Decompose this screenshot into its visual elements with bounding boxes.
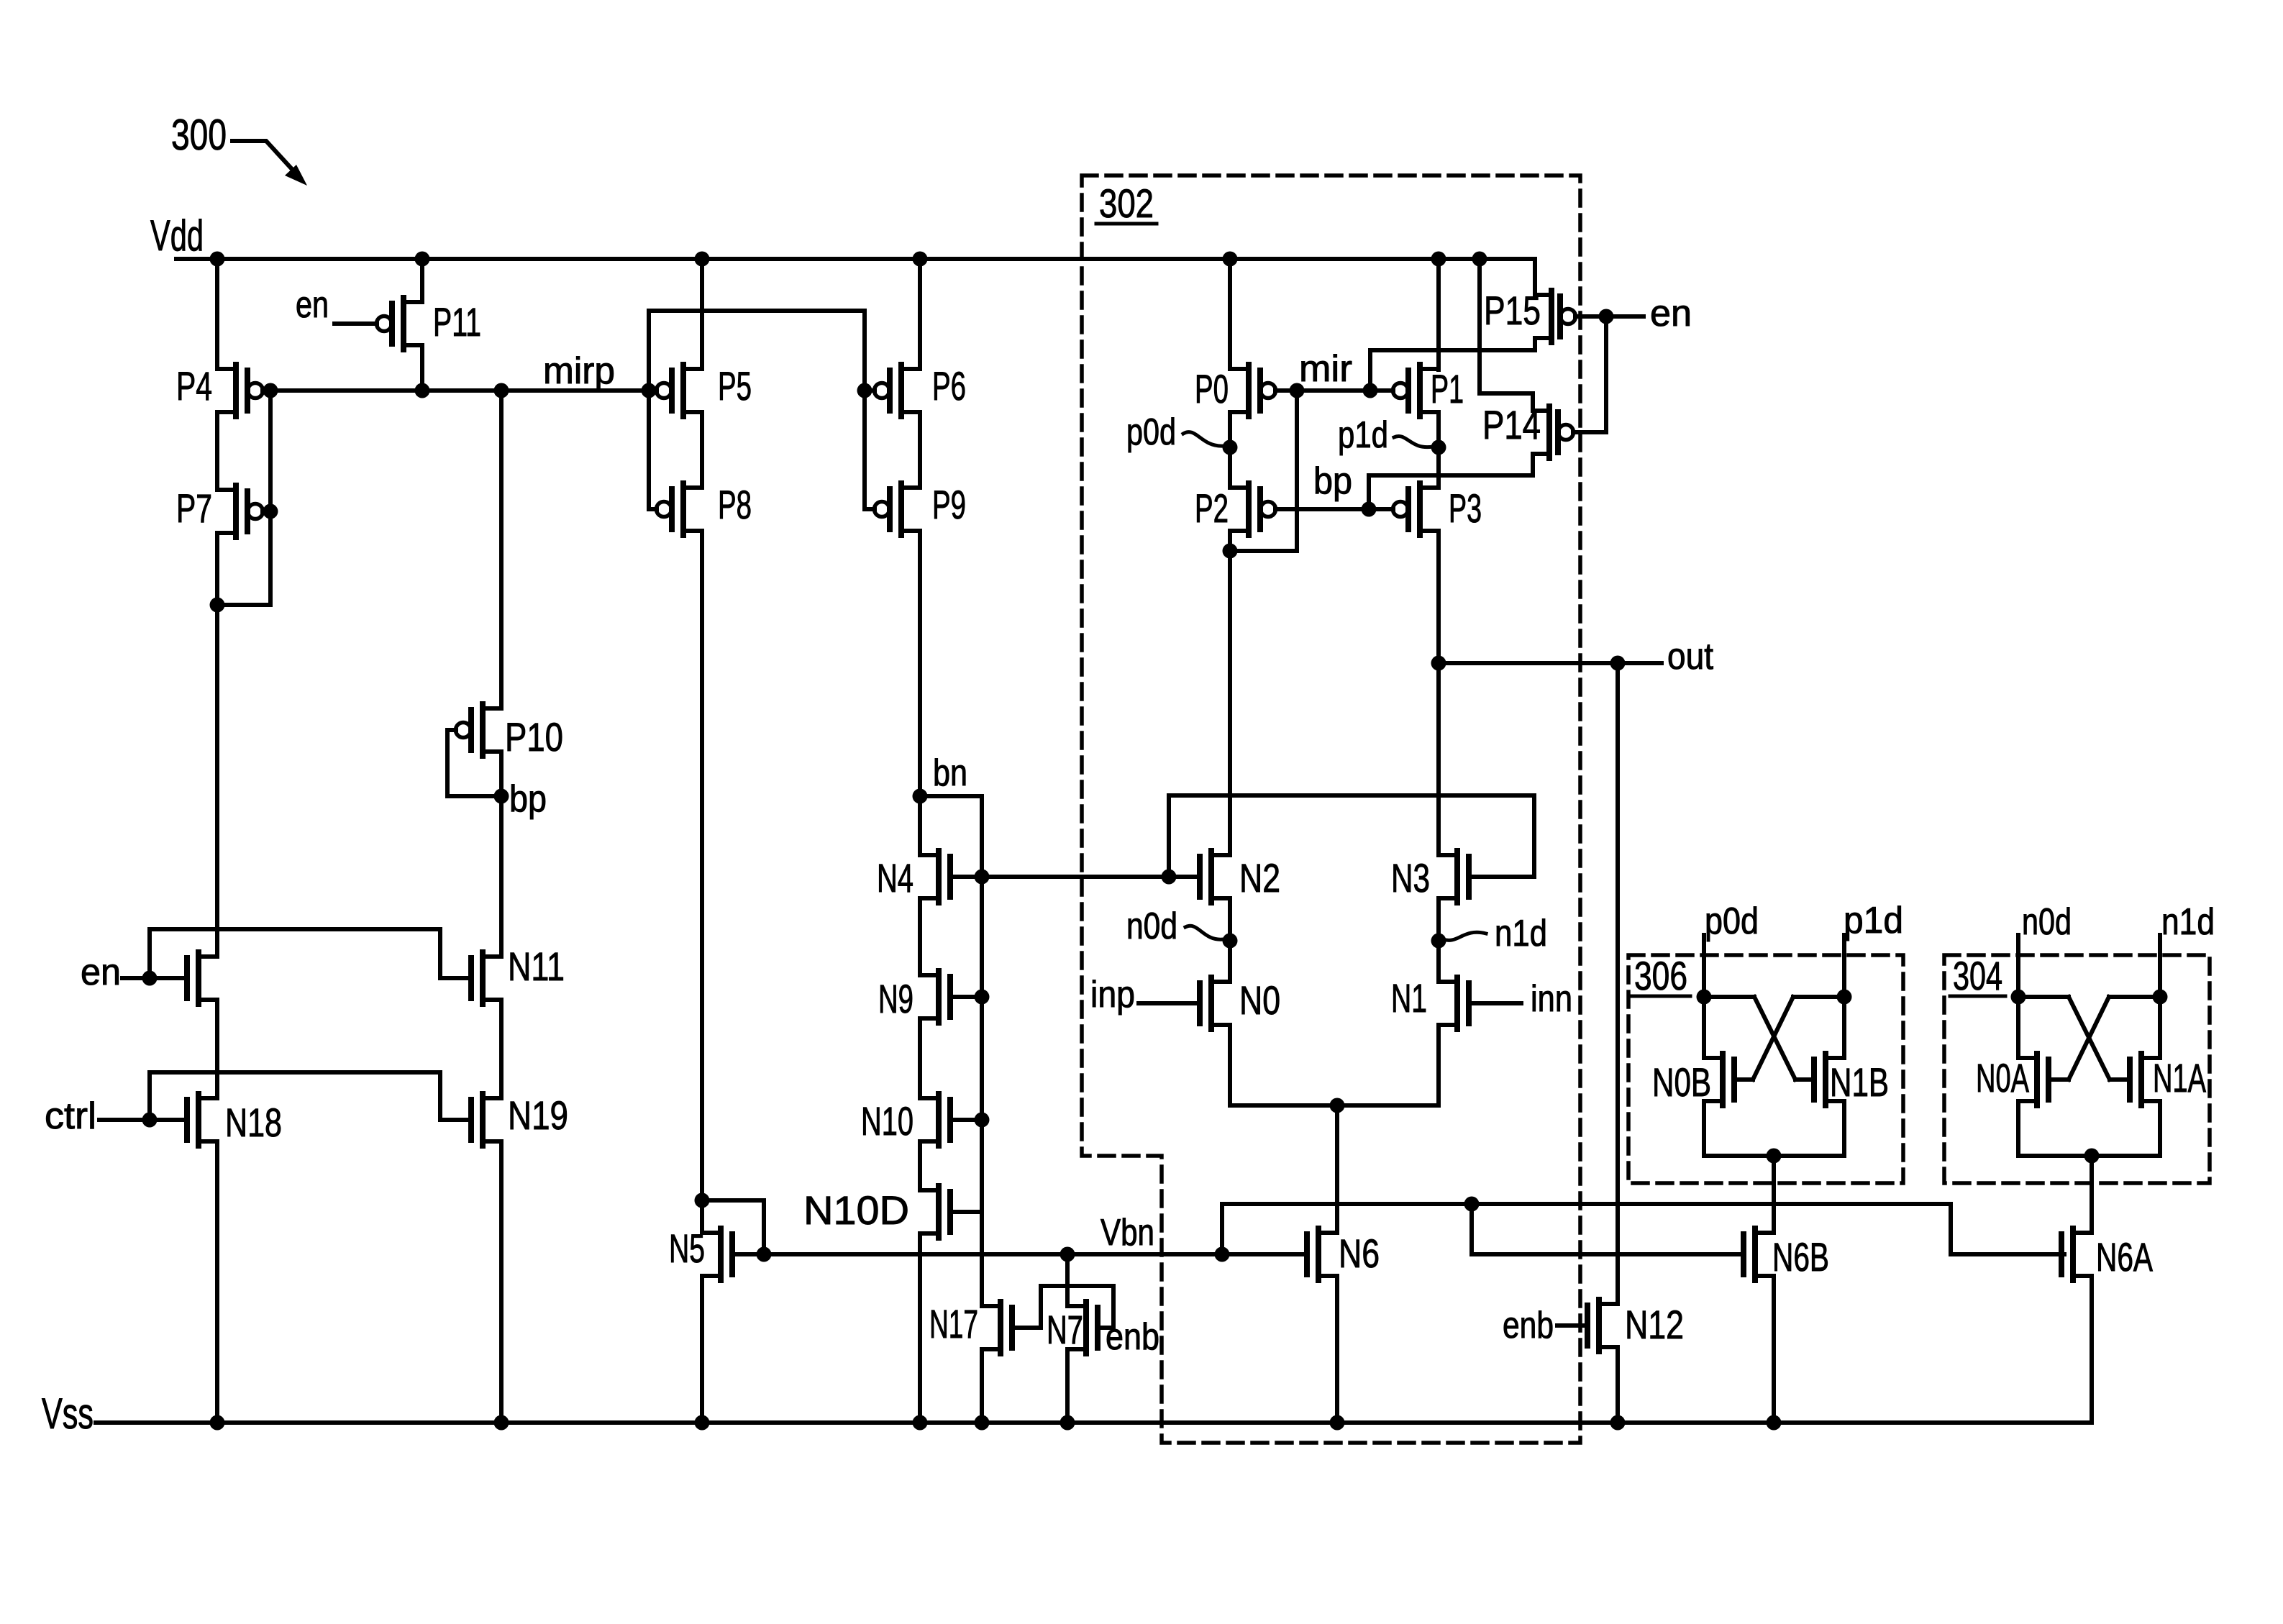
svg-text:Vss: Vss [42,1390,94,1438]
svg-text:P11: P11 [433,299,481,345]
svg-text:N4: N4 [877,855,913,900]
svg-text:Vbn: Vbn [1101,1212,1154,1254]
svg-text:P1: P1 [1431,366,1464,411]
svg-text:p1d: p1d [1844,900,1903,941]
svg-text:en: en [1650,293,1692,334]
svg-text:Vdd: Vdd [150,211,204,260]
svg-text:P0: P0 [1195,366,1229,411]
svg-text:enb: enb [1106,1316,1159,1358]
svg-text:302: 302 [1099,181,1154,226]
svg-text:p0d: p0d [1126,411,1176,453]
svg-text:mirp: mirp [543,350,615,392]
svg-text:P15: P15 [1484,288,1541,333]
svg-text:N1: N1 [1391,975,1427,1021]
svg-text:N1A: N1A [2153,1055,2206,1100]
svg-text:P7: P7 [176,485,212,531]
svg-text:N1B: N1B [1830,1059,1889,1105]
svg-text:n1d: n1d [2161,901,2215,943]
svg-text:N6A: N6A [2096,1234,2153,1279]
svg-text:P9: P9 [932,482,966,527]
svg-text:enb: enb [1503,1305,1554,1346]
svg-text:P4: P4 [176,363,212,409]
svg-text:N2: N2 [1239,855,1280,900]
svg-text:P2: P2 [1195,485,1229,531]
svg-text:out: out [1667,636,1713,678]
svg-text:304: 304 [1953,953,2002,998]
svg-text:N7: N7 [1047,1307,1083,1352]
svg-text:n0d: n0d [1126,905,1177,947]
svg-text:P8: P8 [718,482,752,527]
svg-text:P6: P6 [932,363,966,409]
svg-text:N0: N0 [1239,977,1280,1023]
svg-text:ctrl: ctrl [45,1095,96,1137]
svg-text:en: en [296,284,329,326]
svg-text:N10D: N10D [803,1187,909,1233]
svg-text:bp: bp [1313,460,1352,502]
svg-text:N12: N12 [1625,1302,1684,1347]
svg-text:N0B: N0B [1652,1059,1711,1105]
svg-text:n1d: n1d [1495,913,1547,954]
svg-text:P3: P3 [1449,485,1482,531]
svg-text:N0A: N0A [1976,1055,2029,1100]
svg-text:P5: P5 [718,363,752,409]
svg-text:bp: bp [509,778,547,820]
svg-text:mir: mir [1299,348,1352,390]
svg-text:N9: N9 [878,976,913,1021]
svg-text:P14: P14 [1482,402,1541,447]
svg-text:N6: N6 [1339,1231,1380,1276]
svg-text:N17: N17 [929,1301,978,1346]
svg-text:p0d: p0d [1705,900,1759,942]
svg-text:N6B: N6B [1772,1234,1829,1279]
svg-text:n0d: n0d [2022,901,2072,943]
svg-text:en: en [81,952,121,993]
svg-text:P10: P10 [505,714,563,759]
svg-text:p1d: p1d [1338,414,1388,456]
svg-text:N11: N11 [508,944,565,989]
svg-text:inn: inn [1531,978,1572,1020]
svg-text:N3: N3 [1391,855,1430,900]
svg-text:N18: N18 [225,1100,282,1145]
svg-text:N10: N10 [861,1098,913,1144]
svg-text:300: 300 [171,111,227,159]
svg-text:N19: N19 [508,1092,568,1138]
svg-text:inp: inp [1090,974,1135,1016]
svg-text:306: 306 [1634,953,1687,998]
svg-text:N5: N5 [669,1226,705,1271]
svg-text:bn: bn [933,752,967,794]
